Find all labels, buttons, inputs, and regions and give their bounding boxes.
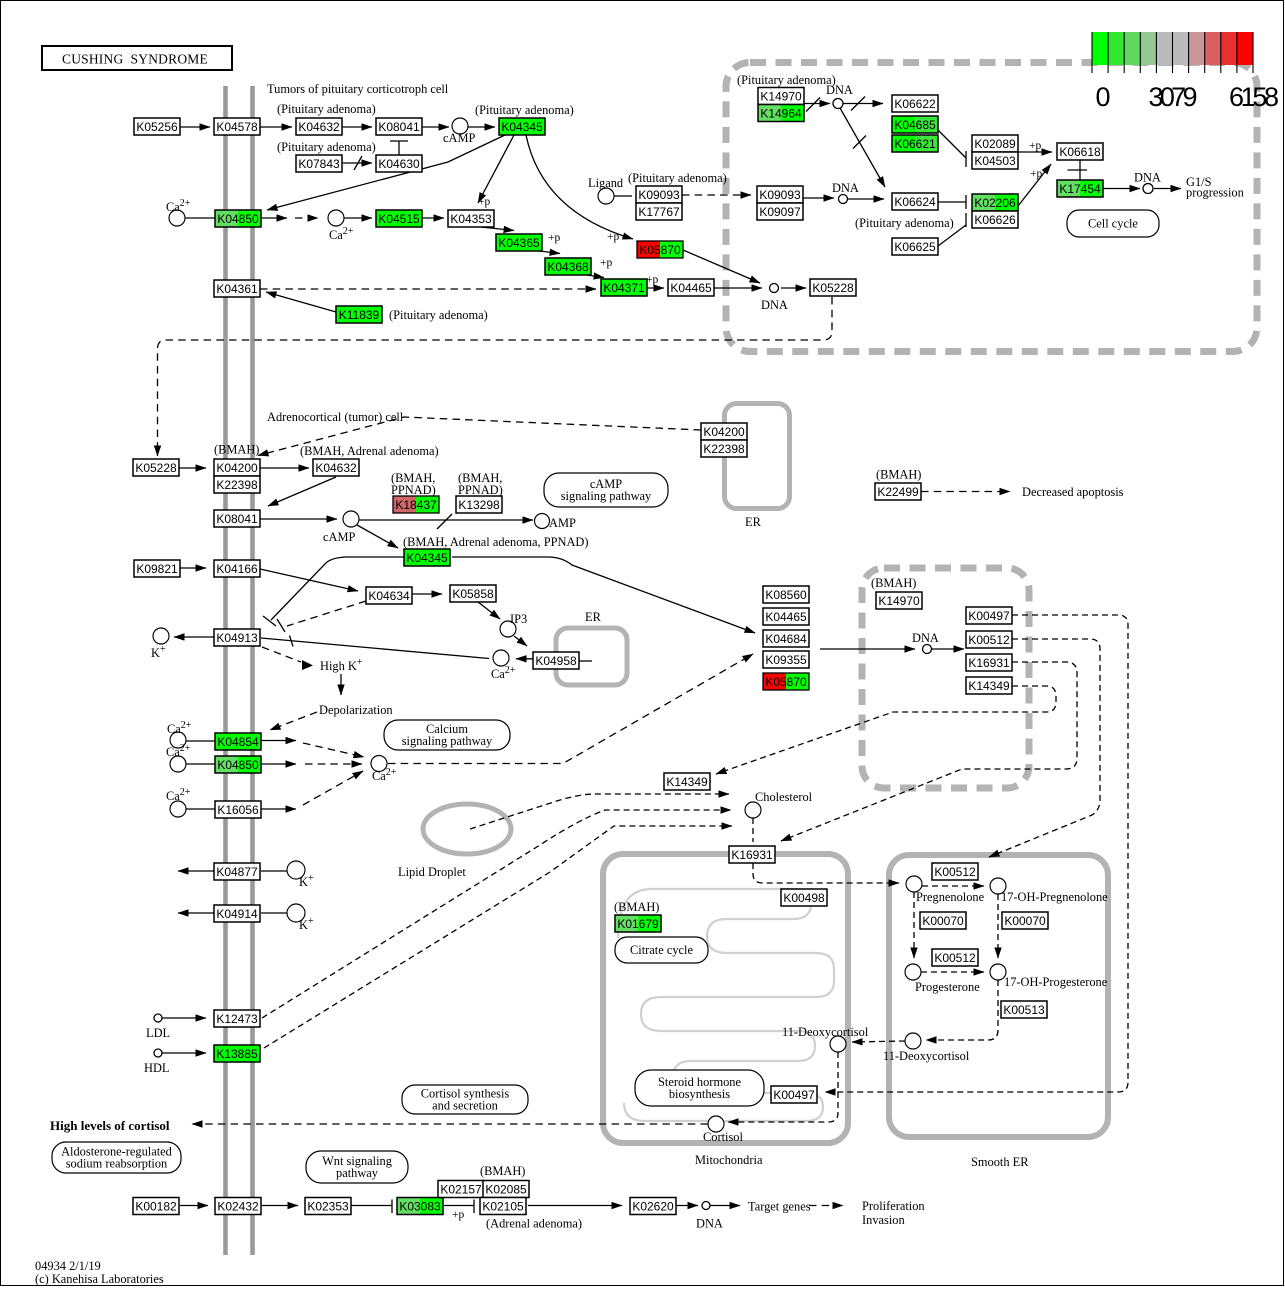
svg-text:K02089: K02089 (974, 137, 1016, 151)
svg-text:High K+: High K+ (320, 657, 363, 673)
svg-text:and secretion: and secretion (432, 1099, 498, 1113)
svg-text:Proliferation: Proliferation (862, 1199, 925, 1213)
svg-text:AMP: AMP (549, 516, 576, 530)
svg-text:K04503: K04503 (974, 154, 1016, 168)
svg-text:11-Deoxycortisol: 11-Deoxycortisol (883, 1049, 970, 1063)
svg-text:04934 2/1/19: 04934 2/1/19 (35, 1259, 101, 1273)
svg-text:K08041: K08041 (216, 512, 258, 526)
svg-text:K14349: K14349 (968, 679, 1010, 693)
svg-text:K09821: K09821 (136, 562, 178, 576)
svg-text:K06626: K06626 (974, 213, 1016, 227)
svg-text:K04850: K04850 (217, 212, 259, 226)
svg-text:K02620: K02620 (632, 1200, 674, 1214)
svg-text:signaling pathway: signaling pathway (561, 489, 652, 503)
svg-text:K00497: K00497 (968, 609, 1010, 623)
svg-text:+p: +p (646, 274, 658, 286)
svg-text:Adrenocortical (tumor) cell: Adrenocortical (tumor) cell (267, 410, 404, 424)
svg-text:K17767: K17767 (638, 205, 680, 219)
svg-text:Ca2+: Ca2+ (491, 665, 516, 681)
svg-text:K04353: K04353 (450, 212, 492, 226)
svg-text:K22499: K22499 (877, 485, 919, 499)
svg-text:Ca2+: Ca2+ (167, 720, 192, 736)
svg-text:ER: ER (745, 515, 762, 529)
svg-text:K05228: K05228 (135, 461, 177, 475)
svg-text:K09355: K09355 (765, 653, 807, 667)
svg-text:K14964: K14964 (760, 107, 802, 121)
svg-text:K04877: K04877 (216, 865, 258, 879)
svg-text:11-Deoxycortisol: 11-Deoxycortisol (782, 1025, 869, 1039)
svg-text:K00513: K00513 (1003, 1003, 1045, 1017)
svg-text:K06625: K06625 (894, 240, 936, 254)
svg-text:K00512: K00512 (934, 951, 976, 965)
svg-text:K13298: K13298 (458, 498, 500, 512)
svg-text:K09097: K09097 (759, 205, 801, 219)
svg-text:Mitochondria: Mitochondria (695, 1153, 763, 1167)
svg-text:signaling pathway: signaling pathway (402, 734, 493, 748)
svg-text:K04854: K04854 (217, 735, 259, 749)
svg-text:(Pituitary adenoma): (Pituitary adenoma) (855, 216, 954, 230)
svg-text:K00070: K00070 (922, 914, 964, 928)
svg-text:+p: +p (600, 257, 612, 269)
svg-text:progression: progression (1186, 186, 1244, 200)
svg-text:ER: ER (585, 610, 602, 624)
svg-text:K16931: K16931 (968, 656, 1010, 670)
svg-text:DNA: DNA (696, 1217, 723, 1231)
svg-text:K04465: K04465 (765, 610, 807, 624)
svg-text:K04361: K04361 (216, 282, 258, 296)
svg-text:K04630: K04630 (378, 157, 420, 171)
svg-text:Ca2+: Ca2+ (372, 767, 397, 783)
svg-text:LDL: LDL (146, 1026, 170, 1040)
svg-text:K04684: K04684 (765, 632, 807, 646)
svg-text:Target genes: Target genes (748, 1200, 811, 1214)
svg-text:Ca2+: Ca2+ (166, 787, 191, 803)
svg-text:K09093: K09093 (638, 188, 680, 202)
svg-text:K04913: K04913 (216, 631, 258, 645)
svg-text:IP3: IP3 (510, 612, 527, 626)
svg-text:K05870: K05870 (765, 675, 807, 689)
svg-text:DNA: DNA (761, 298, 788, 312)
svg-text:Depolarization: Depolarization (319, 703, 393, 717)
svg-text:+p: +p (1030, 168, 1042, 180)
svg-text:(BMAH, Adrenal adenoma): (BMAH, Adrenal adenoma) (300, 444, 439, 458)
svg-text:Ca2+: Ca2+ (166, 743, 191, 759)
svg-text:K02206: K02206 (974, 196, 1016, 210)
svg-text:K04632: K04632 (315, 461, 357, 475)
svg-text:K04368: K04368 (547, 260, 589, 274)
svg-text:PPNAD): PPNAD) (391, 483, 436, 497)
svg-text:Cholesterol: Cholesterol (755, 790, 813, 804)
svg-text:K04685: K04685 (894, 118, 936, 132)
svg-text:K04634: K04634 (368, 589, 410, 603)
svg-text:K04345: K04345 (501, 120, 543, 134)
svg-text:K06624: K06624 (894, 195, 936, 209)
svg-text:K17454: K17454 (1059, 182, 1101, 196)
svg-text:Cell cycle: Cell cycle (1088, 217, 1138, 231)
svg-text:K+: K+ (151, 644, 166, 660)
svg-text:K04365: K04365 (498, 236, 540, 250)
svg-text:K04914: K04914 (216, 907, 258, 921)
svg-text:17-OH-Progesterone: 17-OH-Progesterone (1004, 975, 1108, 989)
svg-text:K04958: K04958 (535, 654, 577, 668)
svg-text:K04515: K04515 (378, 212, 420, 226)
svg-text:K14970: K14970 (878, 594, 920, 608)
svg-text:K07843: K07843 (298, 157, 340, 171)
svg-text:Progesterone: Progesterone (915, 980, 980, 994)
svg-text:K12473: K12473 (216, 1012, 258, 1026)
svg-text:cAMP: cAMP (323, 530, 355, 544)
svg-text:K05228: K05228 (812, 281, 854, 295)
svg-text:(BMAH): (BMAH) (480, 1164, 525, 1178)
svg-text:Ca2+: Ca2+ (166, 198, 191, 214)
svg-text:0: 0 (1095, 82, 1110, 112)
svg-text:K08560: K08560 (765, 588, 807, 602)
svg-text:K06618: K06618 (1059, 145, 1101, 159)
svg-text:K22398: K22398 (703, 442, 745, 456)
svg-text:K00070: K00070 (1004, 914, 1046, 928)
svg-text:(Adrenal adenoma): (Adrenal adenoma) (486, 1217, 582, 1231)
svg-text:DNA: DNA (832, 181, 859, 195)
svg-text:K16056: K16056 (217, 803, 259, 817)
svg-text:DNA: DNA (912, 631, 939, 645)
svg-text:K00512: K00512 (934, 865, 976, 879)
svg-text:K04371: K04371 (603, 281, 645, 295)
svg-text:+p: +p (452, 1209, 464, 1221)
svg-text:K04166: K04166 (216, 562, 258, 576)
svg-text:CUSHING SYNDROME: CUSHING SYNDROME (62, 52, 208, 67)
svg-text:K01679: K01679 (617, 917, 659, 931)
svg-text:(Pituitary adenoma): (Pituitary adenoma) (389, 308, 488, 322)
svg-text:K00497: K00497 (773, 1088, 815, 1102)
svg-text:K06621: K06621 (894, 137, 936, 151)
svg-text:cAMP: cAMP (443, 131, 475, 145)
svg-text:(Pituitary adenoma): (Pituitary adenoma) (277, 140, 376, 154)
svg-text:6158: 6158 (1229, 82, 1279, 112)
svg-text:Ligand: Ligand (588, 176, 624, 190)
svg-text:pathway: pathway (336, 1166, 379, 1180)
svg-text:K13885: K13885 (216, 1047, 258, 1061)
svg-text:K18437: K18437 (395, 498, 437, 512)
svg-text:K04632: K04632 (298, 120, 340, 134)
svg-text:K00182: K00182 (135, 1200, 177, 1214)
svg-text:K03083: K03083 (399, 1200, 441, 1214)
svg-text:3079: 3079 (1149, 82, 1198, 112)
svg-text:+p: +p (548, 232, 560, 244)
svg-text:K00512: K00512 (968, 633, 1010, 647)
svg-text:Invasion: Invasion (862, 1213, 905, 1227)
svg-text:K+: K+ (299, 916, 314, 932)
svg-text:K04200: K04200 (216, 461, 258, 475)
svg-text:DNA: DNA (826, 83, 853, 97)
svg-text:(BMAH, Adrenal adenoma, PPNAD): (BMAH, Adrenal adenoma, PPNAD) (403, 535, 589, 549)
svg-text:HDL: HDL (144, 1061, 169, 1075)
svg-text:Cortisol: Cortisol (703, 1130, 743, 1144)
svg-text:K11839: K11839 (339, 308, 380, 322)
svg-text:K02085: K02085 (485, 1183, 527, 1197)
svg-text:K04345: K04345 (406, 551, 448, 565)
svg-text:(c) Kanehisa Laboratories: (c) Kanehisa Laboratories (35, 1272, 164, 1286)
svg-text:K02105: K02105 (482, 1200, 524, 1214)
svg-text:K02353: K02353 (307, 1200, 349, 1214)
svg-text:K16931: K16931 (731, 848, 773, 862)
svg-text:K04578: K04578 (216, 120, 258, 134)
svg-text:Citrate cycle: Citrate cycle (630, 943, 693, 957)
svg-text:Tumors of pituitary corticotro: Tumors of pituitary corticotroph cell (267, 82, 449, 96)
svg-text:(BMAH): (BMAH) (614, 900, 659, 914)
svg-text:sodium reabsorption: sodium reabsorption (66, 1157, 168, 1171)
svg-text:K04200: K04200 (703, 425, 745, 439)
svg-text:K05870: K05870 (639, 243, 681, 257)
svg-text:Smooth ER: Smooth ER (971, 1155, 1029, 1169)
svg-text:PPNAD): PPNAD) (458, 483, 503, 497)
svg-text:(BMAH): (BMAH) (871, 576, 916, 590)
svg-text:K04465: K04465 (670, 281, 712, 295)
svg-text:(Pituitary adenoma): (Pituitary adenoma) (277, 102, 376, 116)
svg-text:(Pituitary adenoma): (Pituitary adenoma) (475, 103, 574, 117)
svg-text:(Pituitary adenoma): (Pituitary adenoma) (628, 171, 727, 185)
svg-text:High levels of cortisol: High levels of cortisol (50, 1118, 170, 1133)
svg-text:biosynthesis: biosynthesis (669, 1087, 730, 1101)
svg-text:K05858: K05858 (452, 587, 494, 601)
svg-text:+p: +p (478, 196, 490, 208)
svg-text:DNA: DNA (1134, 171, 1161, 185)
svg-text:Pregnenolone: Pregnenolone (916, 890, 985, 904)
svg-text:(Pituitary adenoma): (Pituitary adenoma) (737, 73, 836, 87)
svg-text:Decreased apoptosis: Decreased apoptosis (1022, 485, 1124, 499)
svg-text:Ca2+: Ca2+ (329, 226, 354, 242)
svg-text:K09093: K09093 (759, 188, 801, 202)
svg-text:K06622: K06622 (894, 97, 936, 111)
svg-text:K+: K+ (299, 873, 314, 889)
svg-text:K05256: K05256 (136, 120, 178, 134)
svg-text:K14970: K14970 (760, 90, 802, 104)
svg-text:Lipid Droplet: Lipid Droplet (398, 865, 466, 879)
svg-text:K22398: K22398 (216, 478, 258, 492)
svg-text:(BMAH): (BMAH) (876, 468, 921, 482)
svg-text:+p: +p (607, 231, 619, 243)
svg-text:K08041: K08041 (378, 120, 420, 134)
svg-text:K02157: K02157 (440, 1183, 482, 1197)
svg-text:K14349: K14349 (666, 775, 708, 789)
svg-text:(BMAH): (BMAH) (214, 443, 259, 457)
svg-text:17-OH-Pregnenolone: 17-OH-Pregnenolone (1001, 890, 1108, 904)
svg-text:K02432: K02432 (217, 1200, 259, 1214)
svg-text:K04850: K04850 (217, 758, 259, 772)
svg-text:+p: +p (1029, 140, 1041, 152)
svg-text:K00498: K00498 (783, 891, 825, 905)
